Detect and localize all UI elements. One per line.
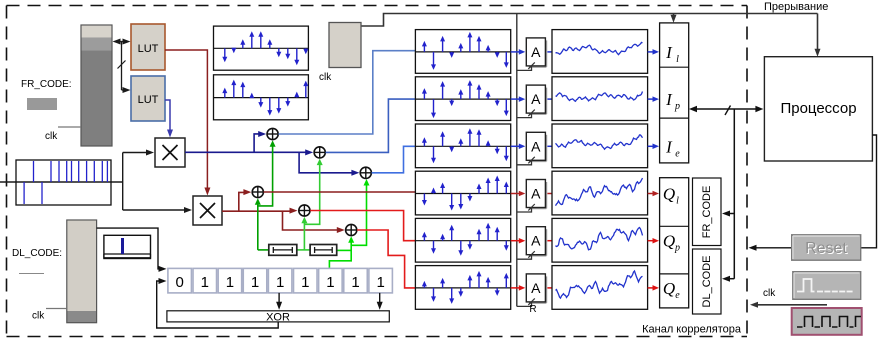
svg-text:p: p xyxy=(674,243,680,254)
svg-text:1: 1 xyxy=(301,274,309,291)
svg-text:DL_CODE:: DL_CODE: xyxy=(12,248,62,259)
svg-text:1: 1 xyxy=(376,274,384,291)
svg-text:R: R xyxy=(529,304,536,315)
svg-text:LUT: LUT xyxy=(138,94,159,106)
svg-text:DL_CODE: DL_CODE xyxy=(701,256,713,308)
svg-text:1: 1 xyxy=(201,274,209,291)
svg-text:e: e xyxy=(675,290,680,301)
svg-text:A: A xyxy=(531,186,541,202)
svg-text:LUT: LUT xyxy=(138,43,159,55)
svg-text:e: e xyxy=(675,148,680,159)
svg-text:A: A xyxy=(531,280,541,296)
svg-text:A: A xyxy=(531,44,541,60)
svg-text:clk: clk xyxy=(45,131,58,142)
svg-text:Процессор: Процессор xyxy=(780,100,856,117)
svg-text:Reset: Reset xyxy=(805,240,847,257)
svg-text:clk: clk xyxy=(319,72,332,83)
svg-text:clk: clk xyxy=(763,288,776,299)
svg-text:FR_CODE: FR_CODE xyxy=(701,186,713,239)
svg-text:Q: Q xyxy=(663,279,675,298)
svg-text:A: A xyxy=(531,138,541,154)
svg-text:Канал коррелятора: Канал коррелятора xyxy=(642,324,742,336)
svg-text:1: 1 xyxy=(326,274,334,291)
svg-text:clk: clk xyxy=(32,311,45,322)
svg-text:1: 1 xyxy=(351,274,359,291)
svg-text:1: 1 xyxy=(226,274,234,291)
svg-text:XOR: XOR xyxy=(266,311,290,323)
svg-text:1: 1 xyxy=(251,274,259,291)
svg-text:A: A xyxy=(531,91,541,107)
svg-text:FR_CODE:: FR_CODE: xyxy=(21,79,72,90)
svg-text:Q: Q xyxy=(663,232,675,251)
svg-text:1: 1 xyxy=(276,274,284,291)
svg-text:l: l xyxy=(676,54,679,65)
svg-text:A: A xyxy=(531,233,541,249)
svg-text:l: l xyxy=(676,196,679,207)
svg-text:0: 0 xyxy=(175,274,183,291)
svg-text:p: p xyxy=(674,101,680,112)
svg-text:Q: Q xyxy=(663,185,675,204)
svg-text:Прерывание: Прерывание xyxy=(764,1,828,13)
